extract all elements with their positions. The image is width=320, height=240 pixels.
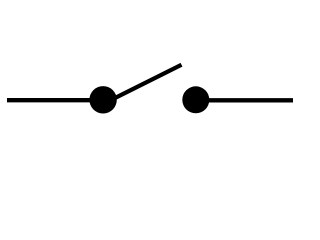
wire <box>7 98 100 102</box>
wire <box>196 98 293 102</box>
node B <box>182 86 209 113</box>
node A <box>89 86 116 113</box>
switch SW1 <box>109 65 182 101</box>
